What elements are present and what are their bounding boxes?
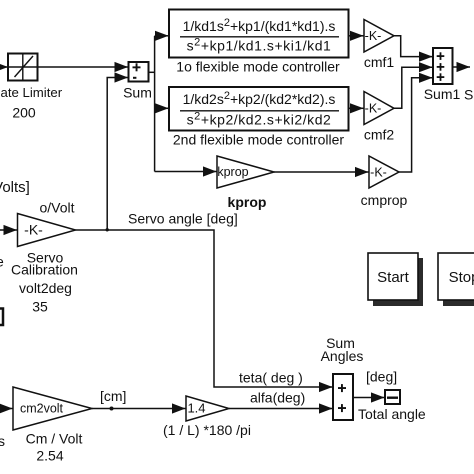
- svg-text:s2+kp2/kd2.s+ki2/kd2: s2+kp2/kd2.s+ki2/kd2: [187, 111, 332, 128]
- svg-text:35: 35: [32, 299, 48, 315]
- svg-text:2nd flexible mode controller: 2nd flexible mode controller: [173, 132, 345, 148]
- svg-text:2.54: 2.54: [36, 448, 63, 464]
- svg-text:o/Volt: o/Volt: [39, 200, 74, 216]
- svg-text:[deg]: [deg]: [366, 369, 397, 385]
- svg-text:200: 200: [12, 105, 36, 121]
- svg-text:s2+kp1/kd1.s+ki1/kd1: s2+kp1/kd1.s+ki1/kd1: [187, 37, 332, 54]
- svg-text:s: s: [0, 433, 5, 449]
- svg-text:cm2volt: cm2volt: [20, 402, 64, 416]
- svg-text:(1 / L) *180 /pi: (1 / L) *180 /pi: [163, 422, 251, 438]
- svg-text:[Volts]: [Volts]: [0, 179, 30, 196]
- svg-text:Calibration: Calibration: [11, 262, 78, 278]
- svg-text:1.4: 1.4: [187, 401, 205, 416]
- svg-text:Start: Start: [377, 269, 410, 286]
- svg-text:e: e: [0, 254, 4, 270]
- svg-text:cmf2: cmf2: [364, 127, 395, 143]
- svg-text:S: S: [464, 87, 473, 103]
- svg-text:cmf1: cmf1: [364, 54, 395, 70]
- svg-text:-K-: -K-: [370, 166, 387, 180]
- svg-text:Angles: Angles: [321, 348, 364, 364]
- svg-text:cmprop: cmprop: [361, 192, 408, 208]
- svg-text:Rate Limiter: Rate Limiter: [0, 85, 63, 100]
- svg-text:1/kd2s2+kp2/(kd2*kd2).s: 1/kd2s2+kp2/(kd2*kd2).s: [183, 90, 336, 107]
- svg-text:-K-: -K-: [365, 29, 382, 43]
- svg-text:alfa(deg): alfa(deg): [250, 390, 305, 406]
- svg-text:kprop: kprop: [228, 194, 267, 210]
- svg-text:-K-: -K-: [365, 102, 382, 116]
- svg-text:1/kd1s2+kp1/(kd1*kd1).s: 1/kd1s2+kp1/(kd1*kd1).s: [183, 17, 336, 34]
- svg-text:[cm]: [cm]: [100, 388, 126, 404]
- svg-text:-K-: -K-: [24, 222, 43, 238]
- svg-text:Cm / Volt: Cm / Volt: [26, 431, 83, 447]
- svg-text:teta( deg ): teta( deg ): [239, 370, 303, 386]
- svg-text:Sum: Sum: [123, 85, 152, 101]
- svg-text:kprop: kprop: [217, 165, 248, 179]
- svg-text:Servo angle [deg]: Servo angle [deg]: [128, 211, 238, 227]
- svg-text:Total angle: Total angle: [358, 406, 426, 422]
- svg-text:Stop: Stop: [449, 269, 474, 286]
- svg-text:volt2deg: volt2deg: [19, 280, 72, 296]
- svg-text:1o flexible mode controller: 1o flexible mode controller: [176, 59, 340, 75]
- svg-text:Sum1: Sum1: [424, 86, 461, 102]
